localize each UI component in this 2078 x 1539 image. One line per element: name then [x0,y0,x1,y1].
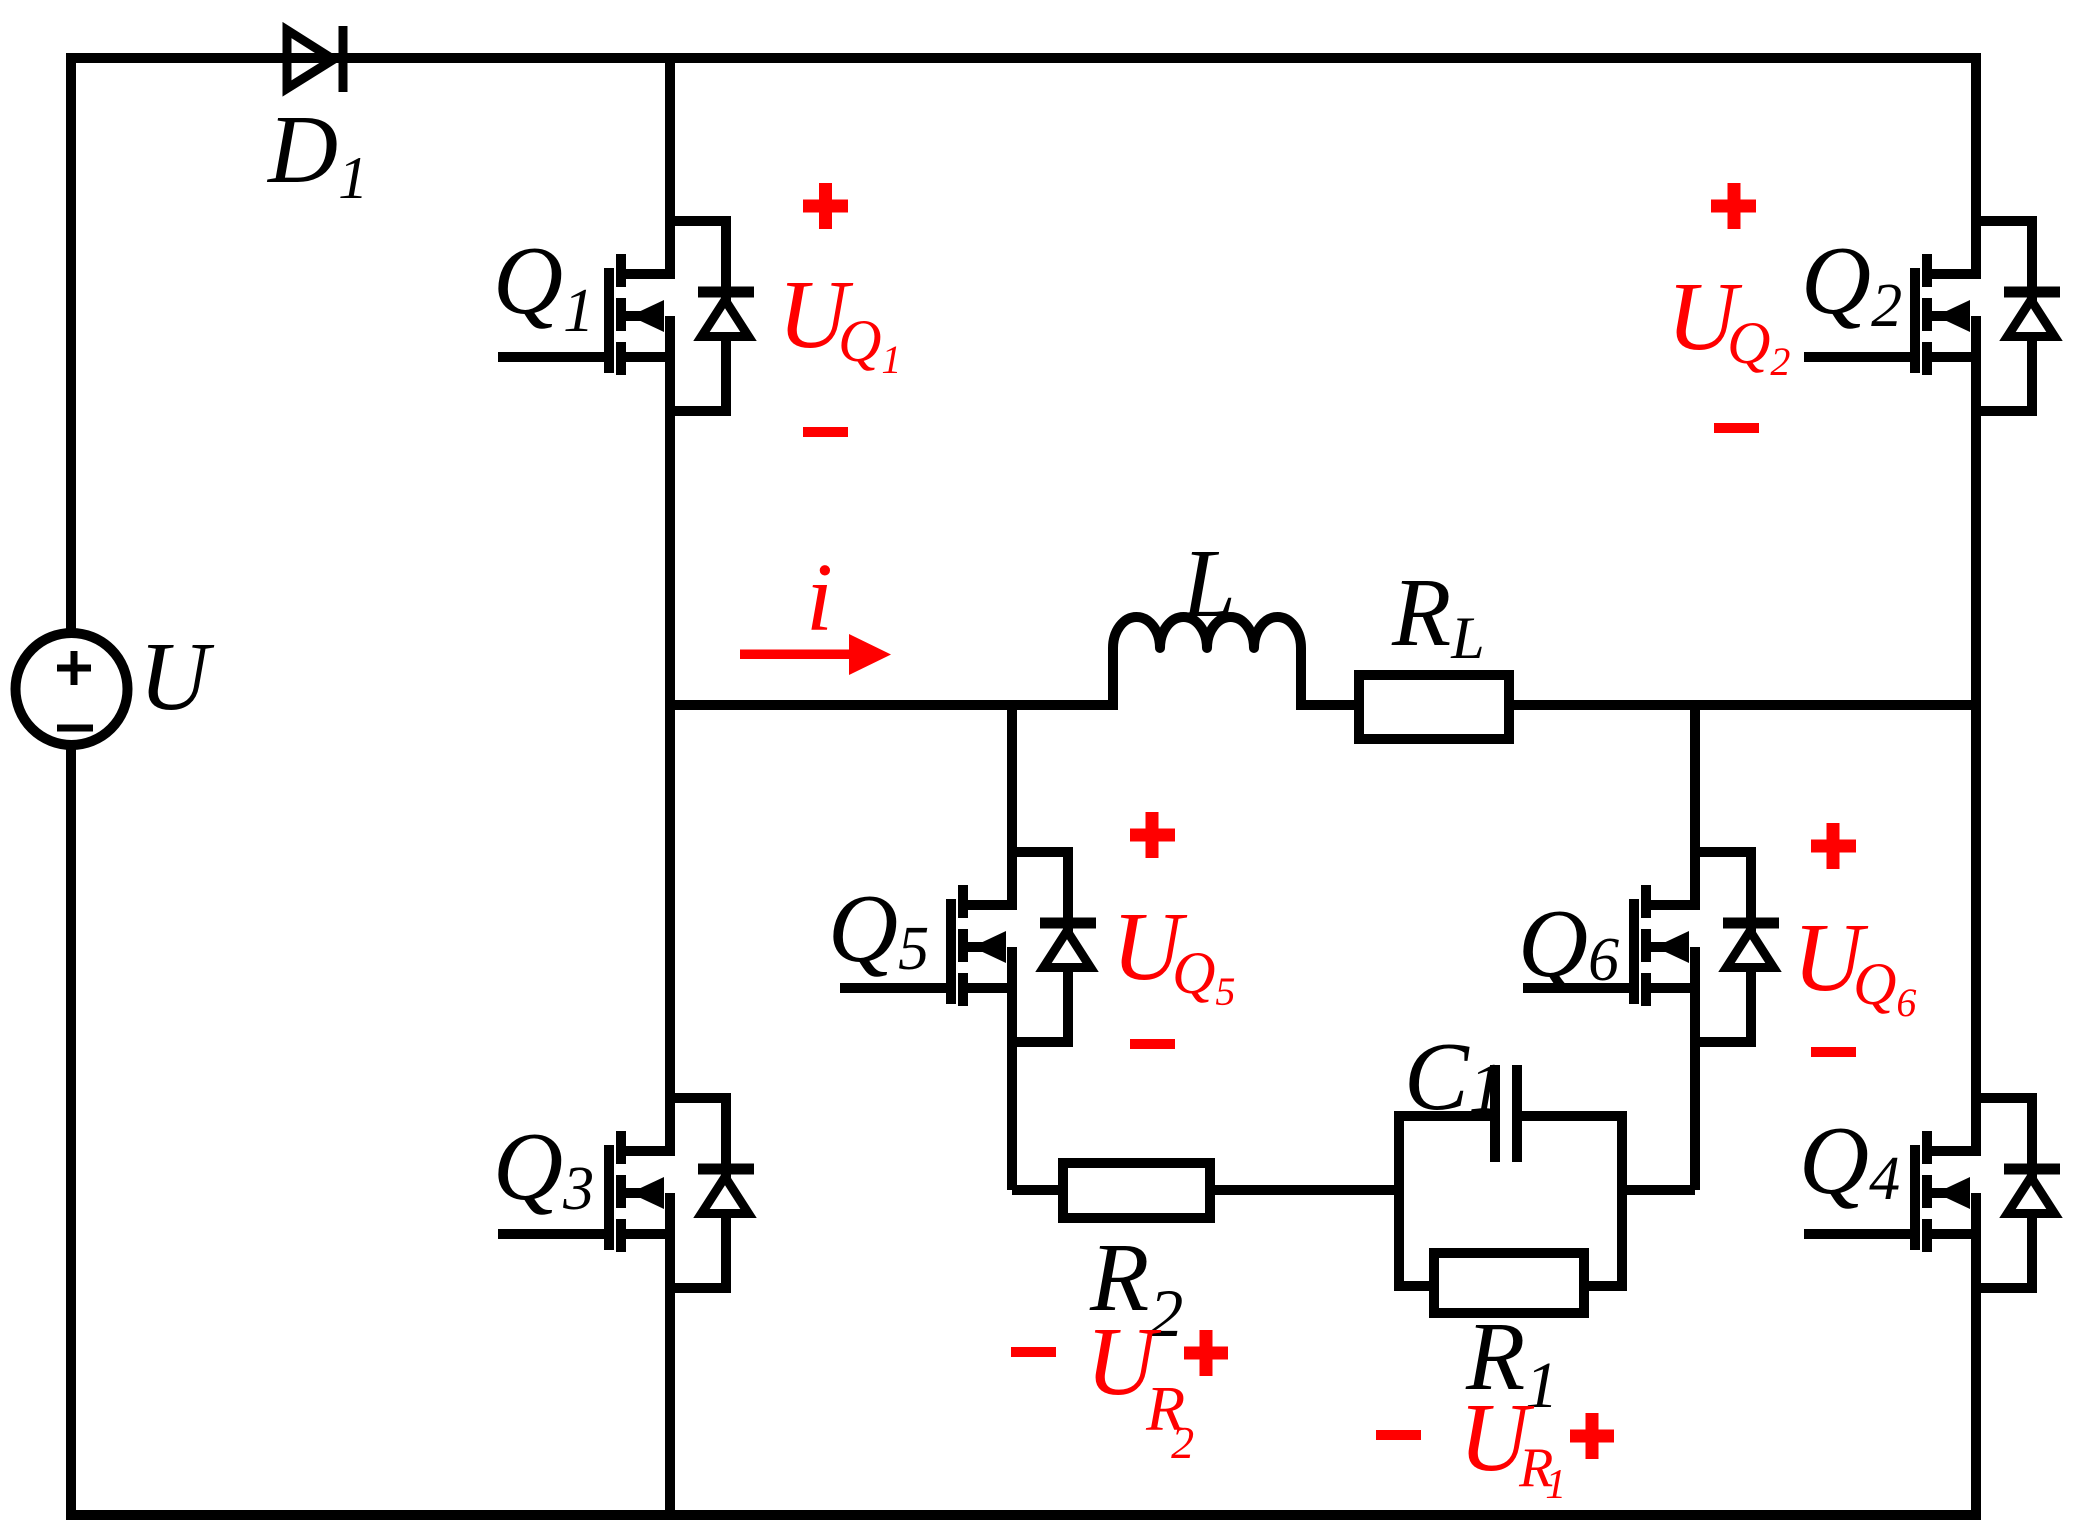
svg-text:L: L [1180,530,1236,637]
svg-text:i: i [806,544,833,651]
svg-text:U: U [139,623,215,730]
